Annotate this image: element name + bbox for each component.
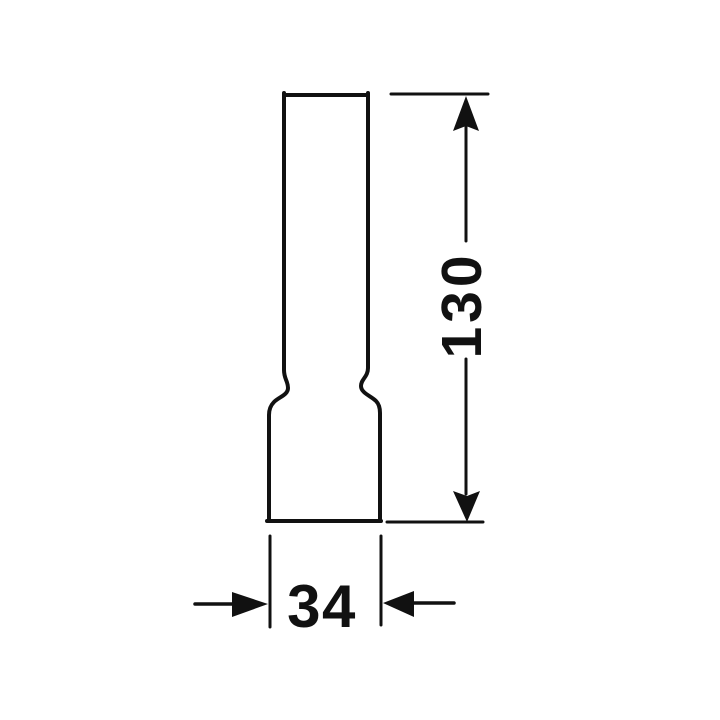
lamp glass top edge <box>284 93 368 97</box>
dim 34 right arrowhead <box>383 591 414 617</box>
dim 34 left extension line <box>269 536 272 627</box>
lamp glass bottom edge <box>267 519 381 523</box>
dim 34 left arrow shaft <box>195 602 238 606</box>
dim 130 bottom extension line <box>387 521 483 524</box>
svg-text:130: 130 <box>430 251 494 358</box>
dim 130 line lower shaft <box>465 359 468 494</box>
svg-text:34: 34 <box>287 573 357 640</box>
dim 130 top arrowhead <box>453 96 479 131</box>
dim 130 top extension line <box>391 93 488 96</box>
dim 130 bottom arrowhead <box>453 491 480 522</box>
lamp glass left profile <box>269 93 288 520</box>
dim 34 right arrow shaft <box>412 601 454 605</box>
dim 130 line upper shaft <box>465 126 468 241</box>
lamp glass right profile <box>361 93 380 520</box>
dim 34 right extension line <box>380 536 383 625</box>
dim 34 left arrowhead <box>232 592 268 617</box>
